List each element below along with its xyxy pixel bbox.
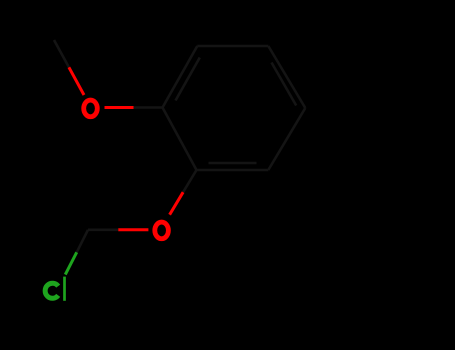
bond O1-V1 : carbon half: [134, 106, 163, 109]
wire double bond inner V6-V1: [176, 58, 200, 101]
Cl letter l: [63, 277, 66, 301]
wire ring edge V5-V6: [197, 45, 268, 48]
bond O2-CH2 : oxygen half: [118, 228, 148, 231]
Cl letter C: [45, 283, 58, 298]
wire ring edge V3-V4: [268, 108, 305, 170]
benzene ring: [163, 46, 306, 170]
bond CH2-Cl : chlorine half: [65, 252, 76, 274]
bond O2-CH2 : carbon half: [88, 229, 118, 232]
wire ring edge V4-V5: [268, 46, 305, 108]
atom Cl label: [45, 277, 64, 301]
atom O1 (methoxy oxygen): [84, 100, 98, 117]
wire ring edge V2-V3: [197, 169, 269, 172]
wire ring edge V6-V1: [163, 46, 198, 108]
bond C(methyl)-O1 : oxygen half: [69, 67, 84, 95]
bond CH2-Cl : carbon half: [77, 230, 88, 253]
wire ring edge V1-V2: [163, 108, 197, 171]
bond V2-O2 : oxygen half: [170, 192, 184, 215]
wire double bond inner V2-V3: [209, 162, 257, 165]
bond V2-O2 : carbon half: [183, 170, 196, 192]
bond O1-V1 : oxygen half: [105, 106, 134, 109]
atom O2 (ether oxygen): [155, 222, 169, 239]
bond C(methyl)-O1 : carbon half: [54, 40, 69, 67]
wire double bond inner V4-V5: [272, 63, 297, 106]
